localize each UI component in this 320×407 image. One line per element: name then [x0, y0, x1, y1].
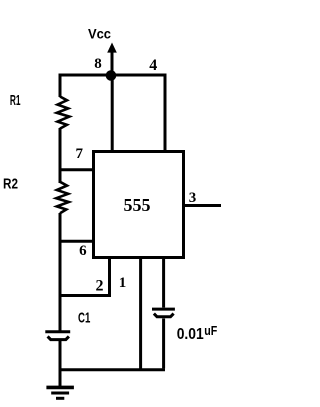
svg-text:8: 8	[94, 56, 102, 72]
wire left vertical R1-to-R2 segment	[59, 128, 62, 183]
wire bottom rail	[59, 368, 166, 371]
wire pin 8 stub	[111, 75, 114, 151]
svg-text:R2: R2	[3, 175, 18, 192]
wire pin 1 stub	[139, 258, 142, 370]
svg-text:R1: R1	[10, 92, 21, 109]
op-amp-style IC box 555 U1	[94, 152, 184, 258]
svg-text:0.01: 0.01	[177, 326, 204, 343]
wire 0.01uF top stub	[162, 258, 165, 308]
wire left vertical top segment	[59, 74, 62, 98]
svg-text:C1: C1	[78, 309, 90, 326]
wire left vertical R2-to-C1 segment	[59, 213, 62, 331]
power Vcc arrow	[107, 43, 117, 76]
svg-text:6: 6	[79, 243, 87, 259]
ground	[46, 387, 74, 398]
svg-text:uF: uF	[204, 323, 217, 338]
wire pin 3 output	[184, 204, 221, 207]
resistor R2	[56, 182, 69, 214]
svg-text:1: 1	[119, 275, 127, 291]
junction node at pin 8 rail	[106, 70, 117, 81]
svg-text:Vcc: Vcc	[88, 27, 111, 42]
wire Vcc top rail	[60, 74, 165, 77]
wire pin 2	[59, 258, 110, 296]
svg-text:555: 555	[124, 195, 151, 215]
svg-text:7: 7	[75, 146, 83, 162]
svg-text:4: 4	[149, 57, 157, 74]
wire C1-to-ground segment	[59, 341, 62, 386]
svg-text:3: 3	[189, 190, 197, 206]
wire pin 6	[59, 240, 95, 243]
capacitor C1	[45, 332, 70, 340]
capacitor 0.01uF	[152, 309, 175, 317]
svg-text:2: 2	[96, 277, 104, 294]
wire pin 4 stub	[164, 74, 167, 152]
wire pin 7	[59, 168, 95, 171]
wire 0.01uF bottom stub	[162, 319, 165, 369]
resistor R1	[57, 97, 70, 129]
